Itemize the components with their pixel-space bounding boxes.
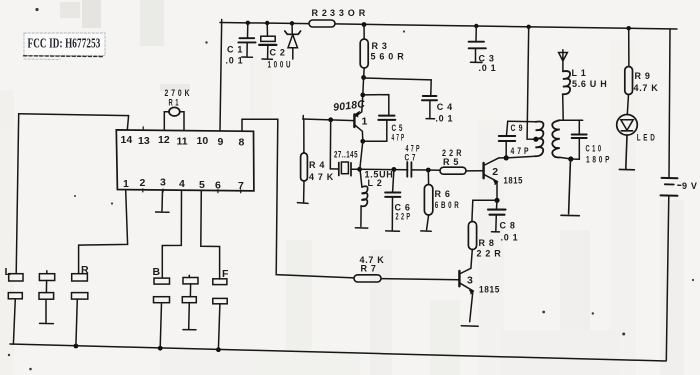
switch R: [72, 264, 90, 346]
resistor R5: [428, 148, 483, 174]
wire crystal drop: [329, 120, 331, 169]
svg-text:2 2 R: 2 2 R: [442, 148, 462, 158]
node junction dot R3 rail: [362, 22, 367, 27]
node junction dot switch R ground: [74, 344, 79, 349]
svg-text:9: 9: [218, 136, 224, 148]
LED D2: [617, 115, 656, 170]
svg-text:5.6 U H: 5.6 U H: [572, 79, 607, 89]
svg-text:R 6: R 6: [435, 189, 451, 199]
svg-text:11: 11: [177, 136, 188, 148]
svg-text:10: 10: [197, 135, 209, 147]
wire pin8 over and down to R7: [242, 119, 354, 278]
svg-text:5 6 0 R: 5 6 0 R: [371, 52, 405, 62]
wire emitter down to L2 node: [360, 141, 363, 169]
switch trim 2: [39, 271, 55, 324]
svg-text:3: 3: [160, 177, 166, 189]
svg-text:L 2: L 2: [368, 178, 383, 188]
svg-text:4 7 K: 4 7 K: [309, 172, 334, 182]
handwritten 9018C: [333, 98, 366, 114]
svg-text:R 5: R 5: [443, 157, 459, 167]
node junction dot C1 rail: [246, 21, 250, 25]
capacitor C2 electrolytic: [259, 23, 291, 70]
svg-text:C 5: C 5: [392, 123, 404, 133]
svg-text:2: 2: [492, 166, 498, 178]
wire Q1 base: [303, 119, 354, 121]
diode zener D1: [285, 23, 301, 59]
wire pin14 to left rail: [19, 114, 129, 130]
resistor R6: [421, 170, 460, 231]
switch B: [153, 266, 170, 348]
capacitor C1: [226, 23, 256, 66]
svg-text:C 9: C 9: [511, 123, 524, 133]
tank top wire: [558, 119, 582, 121]
switch L: [5, 266, 24, 344]
svg-text:14: 14: [121, 134, 133, 146]
svg-text:R 3: R 3: [372, 41, 388, 51]
svg-text:3 3 O R: 3 3 O R: [330, 8, 366, 18]
inductor L3 oscillator coil: [506, 121, 543, 158]
svg-text:R 9: R 9: [635, 71, 651, 81]
node junction dot emitter-L2: [357, 167, 362, 172]
node junction dot transformer rail: [527, 25, 531, 29]
node junction dot C2 rail: [265, 21, 269, 25]
wire top supply rail: [220, 23, 677, 30]
svg-text:C 3: C 3: [479, 54, 495, 64]
svg-text:C 4: C 4: [437, 102, 453, 112]
svg-text:4: 4: [179, 178, 185, 190]
svg-text:C 7: C 7: [405, 152, 417, 162]
resistor R1: [164, 88, 190, 131]
resistor R7: [354, 255, 459, 282]
wire pin9 to rail: [220, 20, 222, 131]
capacitor C5: [363, 95, 405, 143]
IC pin13 top tick: [142, 127, 144, 131]
svg-text:C 1 0: C 1 0: [586, 144, 602, 154]
svg-text:1815: 1815: [504, 176, 524, 186]
svg-text:6 B 0 R: 6 B 0 R: [435, 200, 460, 210]
capacitor C9: [499, 121, 529, 158]
svg-text:4.7 K: 4.7 K: [634, 83, 659, 93]
inductor L4 tank coil: [552, 120, 570, 159]
resistor R8: [468, 222, 501, 269]
svg-text:R 1: R 1: [169, 98, 180, 108]
capacitor C10: [571, 120, 611, 164]
svg-text:C 2: C 2: [270, 48, 286, 58]
node junction dot Q2 collector: [504, 155, 509, 160]
node junction dot switch F ground: [216, 347, 221, 352]
svg-text:C 8: C 8: [500, 221, 516, 231]
capacitor C8: [488, 200, 518, 242]
svg-text:4 7 P: 4 7 P: [392, 133, 405, 143]
wire bottom ground rail: [10, 344, 666, 361]
transistor Q3 1815: [459, 268, 500, 326]
svg-text:27..145: 27..145: [334, 150, 358, 160]
wire left rail down to switch L: [16, 114, 19, 274]
svg-text:.0 1: .0 1: [226, 56, 244, 66]
battery BT1 9V: [661, 178, 698, 361]
svg-text:R 7: R 7: [361, 264, 377, 274]
svg-text:8: 8: [239, 137, 245, 149]
svg-text:2 2 R: 2 2 R: [477, 249, 502, 259]
capacitor C3: [469, 26, 497, 73]
node junction dot Q1 emitter: [360, 139, 365, 144]
svg-text:2 2 P: 2 2 P: [396, 212, 411, 222]
node junction dot Q2 emitter: [494, 198, 499, 203]
node junction dot R3 bottom: [361, 75, 366, 80]
IC U1 box: [116, 130, 254, 191]
node junction dot R5-R6: [426, 168, 431, 173]
svg-text:B: B: [153, 266, 161, 278]
svg-text:12: 12: [158, 134, 170, 146]
svg-text:4 7 P: 4 7 P: [406, 144, 421, 154]
svg-text:R 2: R 2: [312, 8, 328, 18]
wire L2 node to C7: [360, 168, 408, 170]
node junction dot C6: [392, 167, 397, 172]
IC pin stubs bottom edge: [143, 189, 241, 193]
svg-text:2: 2: [140, 177, 146, 189]
node junction dot crystal base: [328, 117, 333, 122]
capacitor C6: [385, 169, 410, 231]
wire pin1 down-left to switch R: [79, 191, 128, 274]
svg-text:13: 13: [138, 135, 150, 147]
svg-text:1 8 0 P: 1 8 0 P: [586, 155, 610, 165]
svg-text:.0 1: .0 1: [501, 233, 519, 243]
wire emitter to R8: [472, 200, 497, 221]
svg-text:1: 1: [362, 116, 368, 128]
ground pin3: [156, 191, 169, 213]
svg-text:FCC ID: H677253: FCC ID: H677253: [28, 36, 101, 51]
switch F: [213, 268, 229, 349]
node junction dot C3 rail: [474, 24, 478, 28]
node junction dot coil tap: [533, 137, 538, 142]
svg-text:1 0 0 U: 1 0 0 U: [268, 60, 292, 70]
resistor R2: [309, 8, 366, 27]
wire pin4 down-left to switch B: [162, 191, 181, 277]
svg-text:C 1: C 1: [227, 45, 243, 55]
svg-text:5: 5: [199, 179, 205, 191]
wire rail to coil tap: [527, 27, 536, 139]
resistor R4: [297, 116, 334, 204]
ground tank: [561, 159, 579, 216]
transistor Q2 1815: [484, 158, 523, 200]
svg-text:.0 1: .0 1: [479, 63, 497, 73]
IC U1 pin numbers top row: [121, 134, 245, 149]
svg-text:4 7 P: 4 7 P: [511, 146, 530, 156]
crystal X1 27.145: [330, 150, 359, 176]
antenna: [559, 50, 568, 72]
node junction dot zener rail: [290, 21, 294, 25]
capacitor C7: [405, 144, 429, 177]
wire right rail to battery: [669, 29, 670, 177]
svg-text:R 8: R 8: [479, 238, 495, 248]
svg-text:2 7 0 K: 2 7 0 K: [165, 88, 191, 98]
inductor L1 5.6UH: [563, 68, 608, 120]
inductor L2 1.5UH: [355, 170, 393, 229]
node junction dot Q1 collector: [360, 93, 365, 98]
svg-text:.0 1: .0 1: [435, 114, 453, 124]
node junction dot R9 rail: [627, 26, 631, 30]
svg-text:L 1: L 1: [572, 68, 587, 78]
node junction dot tank bottom: [568, 156, 573, 161]
svg-text:3: 3: [467, 274, 473, 286]
FCC ID label: [24, 33, 106, 60]
resistor R9: [625, 28, 659, 114]
svg-text:R 4: R 4: [309, 160, 325, 170]
IC U1 pin numbers bottom row: [123, 177, 244, 193]
svg-text:1815: 1815: [479, 285, 500, 295]
svg-text:1: 1: [123, 178, 129, 190]
resistor R3: [360, 25, 404, 78]
transistor Q1 9018: [354, 95, 367, 141]
switch trim 5: [182, 275, 198, 330]
capacitor C4: [422, 80, 453, 124]
wire collector to R3 node: [362, 78, 365, 95]
svg-text:L E D: L E D: [637, 133, 656, 143]
svg-text:9 V: 9 V: [682, 181, 698, 191]
wire pin5 down-right to switch F: [201, 191, 220, 279]
wire R3 bottom to C4: [364, 78, 432, 80]
node junction dot switch B ground: [158, 346, 163, 351]
